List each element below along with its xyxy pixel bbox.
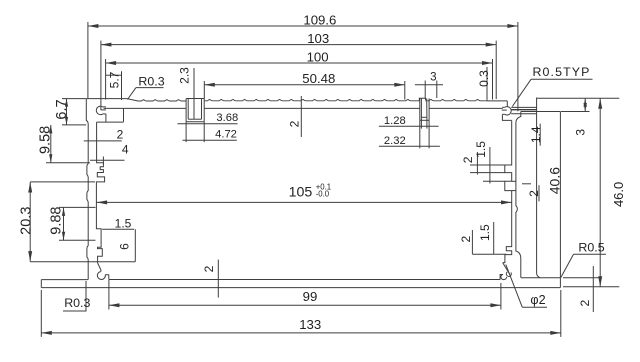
phi2 hole arc xyxy=(506,272,511,276)
dim 2 bottom plate xyxy=(217,260,219,298)
channel C1 outer bottom xyxy=(186,121,204,123)
top plate ramp to serration xyxy=(127,99,138,101)
bottom plate bottom face xyxy=(41,287,560,289)
dim 0.3 xyxy=(486,67,488,99)
bottom plate step up at right xyxy=(500,275,503,280)
svg-text:R0.5TYP: R0.5TYP xyxy=(533,65,591,79)
bottom plate left end edge xyxy=(40,280,42,288)
right wall inner face with bosses xyxy=(503,120,512,262)
svg-text:R0.3: R0.3 xyxy=(64,296,90,310)
top-right boss top lip xyxy=(502,106,505,108)
dim 9.88 xyxy=(63,207,65,240)
top plate bottom face right xyxy=(429,107,503,109)
channel C2 inner wall right xyxy=(426,98,428,117)
dim 2 left wall xyxy=(84,140,122,142)
label R0.5TYP xyxy=(531,78,593,80)
top plate top surface right flat xyxy=(487,100,507,102)
svg-text:5.7: 5.7 xyxy=(108,71,122,88)
bottom-left boss hook xyxy=(99,270,102,272)
svg-text:105: 105 xyxy=(289,184,313,200)
svg-text:109.6: 109.6 xyxy=(303,12,336,27)
svg-text:4: 4 xyxy=(122,142,129,156)
svg-text:R0.3: R0.3 xyxy=(138,75,164,89)
channel C2 inner wall left xyxy=(420,98,422,117)
dim 2.3 xyxy=(193,68,195,119)
channel C1 outer wall left xyxy=(185,99,187,122)
top-left boss bottom lip xyxy=(103,113,106,115)
label phi2 xyxy=(506,265,523,308)
top-right boss bottom lip xyxy=(502,113,504,115)
bottom-left boss lip xyxy=(105,274,109,276)
dim 2 bottom right xyxy=(563,277,601,279)
top-right screw boss C-arc xyxy=(505,107,512,115)
svg-text:4.72: 4.72 xyxy=(215,128,237,140)
svg-text:1.5: 1.5 xyxy=(474,141,488,158)
svg-text:1.28: 1.28 xyxy=(384,115,406,127)
dim 50.48 xyxy=(204,84,404,86)
dim 109.6 xyxy=(88,25,518,27)
top plate right edge xyxy=(506,101,508,107)
dim 46.0 xyxy=(563,286,619,288)
top plate bottom face left xyxy=(104,107,187,109)
svg-text:6: 6 xyxy=(117,243,131,250)
svg-text:9.58: 9.58 xyxy=(37,126,53,154)
channel C2 outer wall left xyxy=(419,98,421,120)
top-right corner step xyxy=(502,114,511,120)
right wall middle boss lines through wall xyxy=(512,180,516,182)
dim 2 right wall xyxy=(538,185,540,201)
svg-text:R0.5: R0.5 xyxy=(578,241,604,255)
label R0.5 xyxy=(574,253,607,255)
0.3 step at serration end xyxy=(486,99,488,101)
pocket outer wall right edge xyxy=(559,112,561,288)
svg-text:103: 103 xyxy=(307,31,329,46)
pocket slot line 1 xyxy=(511,106,536,108)
dim 9.58 xyxy=(50,125,52,163)
svg-text:2: 2 xyxy=(288,120,302,127)
dim 103 xyxy=(101,44,496,46)
svg-text:133: 133 xyxy=(299,317,321,332)
dim 6 left xyxy=(134,229,136,261)
serrated surface section C xyxy=(426,100,488,101)
svg-text:2.32: 2.32 xyxy=(384,135,406,147)
phi2 boss U-dip xyxy=(501,275,507,280)
svg-text:99: 99 xyxy=(303,289,318,304)
channel C1 outer wall right xyxy=(203,99,205,122)
screw channel C1 mouth top xyxy=(186,98,204,100)
left wall outer face xyxy=(86,99,88,280)
svg-text:2: 2 xyxy=(459,235,473,242)
dim 1.5 left slot xyxy=(102,228,134,230)
svg-text:1.4: 1.4 xyxy=(529,126,543,143)
svg-text:40.6: 40.6 xyxy=(546,167,562,194)
channel C1 inner wall left xyxy=(187,99,189,120)
bottom plate top face main xyxy=(109,279,500,281)
dim 133 xyxy=(41,332,561,334)
label R0.3 bottom xyxy=(63,310,87,312)
dim 105 +0.1/-0.0 xyxy=(97,201,512,203)
svg-text:50.48: 50.48 xyxy=(302,71,335,86)
channel C2 outer wall right xyxy=(428,98,430,120)
svg-text:20.3: 20.3 xyxy=(18,207,34,235)
channel C1 inner bottom xyxy=(188,118,201,120)
pocket top line xyxy=(521,111,561,113)
svg-text:9.88: 9.88 xyxy=(49,206,65,234)
top-left boss block bottom xyxy=(97,121,124,123)
dim 3 right xyxy=(537,97,620,99)
dim 2 right middle xyxy=(476,152,478,175)
serrated surface section A xyxy=(138,100,186,101)
svg-text:3: 3 xyxy=(430,70,436,83)
dim 3 serration pitch xyxy=(415,84,443,86)
top plate top surface left flat xyxy=(86,98,127,100)
dim 1.5 right middle xyxy=(489,147,491,184)
svg-text:2.3: 2.3 xyxy=(178,67,192,84)
pocket inner wall xyxy=(537,98,540,278)
dim 1.4 xyxy=(539,124,541,146)
dim 99 xyxy=(109,304,501,306)
svg-text:3.68: 3.68 xyxy=(216,112,238,124)
top-left boss block right edge xyxy=(123,108,125,122)
dim 5.7 xyxy=(106,74,122,76)
bottom-left boss lip edge xyxy=(108,275,110,280)
bottom plate top face left xyxy=(41,279,88,281)
right wall outer face xyxy=(516,112,521,278)
bottom-left boss C-arc xyxy=(97,272,105,280)
dim 4.72 xyxy=(183,139,237,141)
svg-text:1.5: 1.5 xyxy=(115,216,132,230)
label R0.3 top xyxy=(136,87,164,89)
svg-text:2: 2 xyxy=(578,300,592,307)
bottom-left boss diagonal xyxy=(98,263,101,270)
svg-text:φ2: φ2 xyxy=(530,293,545,307)
svg-text:3: 3 xyxy=(574,129,588,136)
top-left boss top lip xyxy=(103,106,106,108)
serrated surface section B xyxy=(204,100,419,101)
svg-text:6.7: 6.7 xyxy=(54,99,70,119)
dim 4 left tooth xyxy=(90,159,125,161)
left wall inner face with teeth xyxy=(96,122,104,263)
svg-text:46.0: 46.0 xyxy=(611,182,626,207)
top-right boss middle line xyxy=(502,109,507,111)
bottom plate top face right xyxy=(521,277,560,279)
top-left boss middle line xyxy=(101,109,106,111)
svg-text:1.5: 1.5 xyxy=(478,224,492,241)
top-left boss block left edge xyxy=(105,114,107,122)
dim 2 right bottom xyxy=(471,230,473,254)
dim 20.3 xyxy=(29,182,31,262)
pocket slot line 3 xyxy=(511,113,536,115)
dim 2 top plate xyxy=(300,96,302,137)
svg-text:-0.0: -0.0 xyxy=(316,190,330,199)
svg-text:2: 2 xyxy=(117,127,124,141)
pocket slot line 2 xyxy=(512,109,537,111)
dim 3.68 xyxy=(177,123,237,125)
phi2 notch diagonal xyxy=(503,263,510,274)
channel C2 inner bottom xyxy=(421,116,427,118)
svg-text:100: 100 xyxy=(307,49,329,64)
dim 100 xyxy=(106,62,493,64)
svg-text:2: 2 xyxy=(527,190,541,197)
dim 2.32 xyxy=(379,145,440,147)
channel C2 outer bottom xyxy=(420,119,429,121)
top plate bottom face middle xyxy=(204,107,420,109)
channel C1 inner wall right xyxy=(201,99,203,120)
svg-text:2: 2 xyxy=(202,265,216,272)
dim 1.5 right bottom xyxy=(493,222,495,254)
dim 1.28 xyxy=(379,125,439,127)
screw channel C2 mouth top xyxy=(419,98,425,101)
svg-text:0.3: 0.3 xyxy=(477,70,491,87)
dim 6.7 xyxy=(66,99,68,125)
top-left screw boss C-arc xyxy=(96,106,103,114)
